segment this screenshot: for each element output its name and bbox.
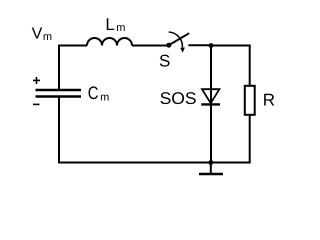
wire right vertical lower (resistor to bottom) [249,115,251,163]
ground bar [199,173,223,175]
node top junction [209,43,214,48]
capacitor Cm bottom plate [36,95,82,97]
wire top-left vertical (Vm node to capacitor) [58,45,60,90]
wire diode branch upper [210,46,212,105]
wire left vertical lower (capacitor to bottom) [58,97,60,164]
svg-text:V: V [32,26,43,43]
inductor Lm [87,38,132,45]
switch S contact node [166,43,171,48]
svg-text:SOS: SOS [160,89,197,108]
svg-text:C: C [88,83,99,103]
node Vm label [32,26,52,44]
svg-text:m: m [43,31,52,43]
svg-text:m: m [116,22,125,34]
switch S blade [169,33,189,45]
capacitor minus sign [33,103,40,105]
wire diode branch lower [210,104,212,163]
svg-text:L: L [105,15,114,34]
label R [263,90,275,109]
label SOS [160,89,197,108]
wire top horizontal left segment [58,45,87,47]
label S [159,51,170,70]
label Lm [105,15,125,34]
svg-text:m: m [100,91,109,103]
wire right vertical upper (to resistor) [249,45,251,87]
diode SOS cathode bar [201,103,220,105]
svg-text:R: R [263,90,275,109]
node bottom junction [208,160,213,165]
capacitor Cm top plate [36,89,82,91]
wire bottom horizontal [58,162,251,164]
resistor R [245,86,255,115]
wire from inductor to switch [132,45,169,47]
wire top junction to top-right corner [211,45,251,47]
diode SOS triangle [202,89,219,103]
capacitor plus sign [33,77,40,84]
switch S closing arrow [169,32,185,53]
ground stub [210,163,212,174]
label Cm [88,83,109,103]
wire from switch to top junction [188,44,211,46]
svg-text:S: S [159,51,170,70]
